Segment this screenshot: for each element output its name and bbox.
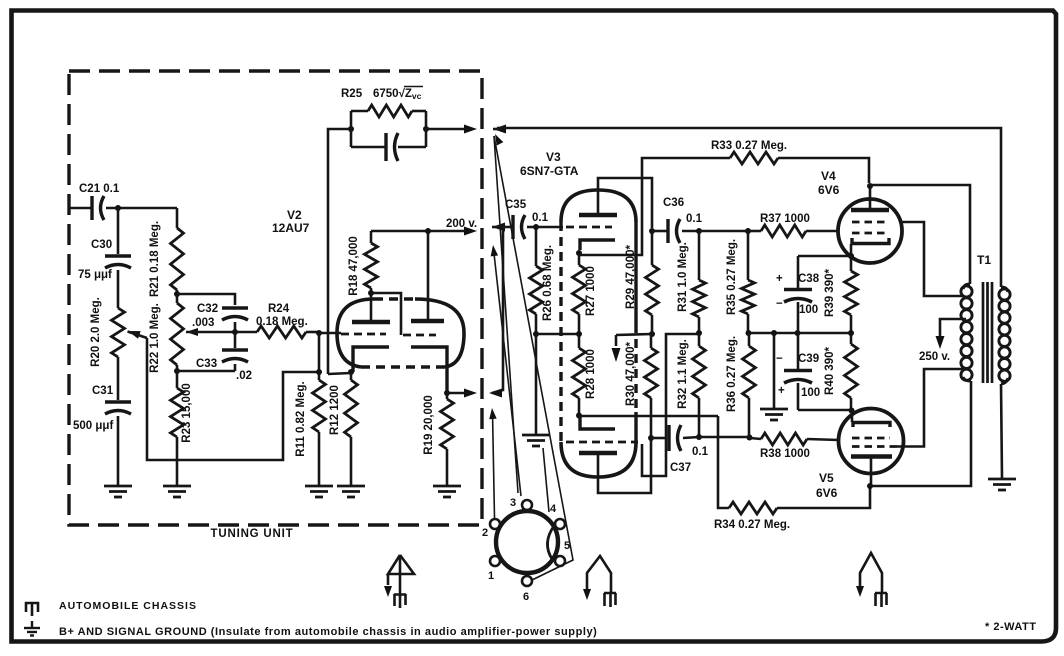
socket pin 5: [555, 556, 565, 566]
V4 cathode: [852, 238, 889, 244]
socket pin 3: [522, 500, 532, 510]
wire wedge line apex to pin5 side: [494, 136, 573, 580]
wire V4 screen to transformer tap: [902, 222, 963, 296]
node C38-C39 on rail: [795, 330, 801, 336]
wire 250v tap: [940, 319, 966, 341]
capacitor C36: [652, 230, 668, 233]
wire V4 cathode to C38: [798, 255, 851, 258]
node R35 top: [745, 228, 751, 234]
socket keyway arc: [547, 526, 554, 559]
wire V3 upper cathode to R33: [579, 158, 730, 255]
resistor R38: [750, 438, 761, 439]
svg-text:R40 390*: R40 390*: [824, 347, 836, 395]
ground R26: [535, 334, 538, 434]
wire ground rail left segment: [536, 333, 579, 336]
wire V5 screen to transformer tap: [897, 369, 963, 447]
V5 grid dashes: [852, 437, 890, 440]
resistor R28: [578, 334, 581, 348]
svg-text:.02: .02: [236, 370, 252, 382]
svg-text:6SN7-GTA: 6SN7-GTA: [520, 164, 579, 178]
wire secondary bottom to ground: [1001, 384, 1002, 478]
svg-text:C35: C35: [505, 199, 527, 211]
resistor R29: [651, 231, 654, 265]
svg-text:0.1: 0.1: [692, 446, 709, 458]
svg-text:R20 2.0 Meg.: R20 2.0 Meg.: [90, 297, 102, 367]
wire C36 to R37: [699, 230, 748, 233]
svg-text:100: 100: [801, 387, 820, 399]
resistor R24: [235, 331, 257, 334]
svg-text:V5: V5: [819, 471, 834, 485]
wire C37 to R38 node: [699, 436, 750, 439]
resistor R22 potentiometer: [171, 303, 184, 365]
wire C33 bottom to R22 bottom: [177, 370, 235, 373]
capacitor C39 electrolytic: [797, 333, 800, 369]
node C35-R26: [533, 224, 539, 230]
connector symbol left with chassis fork: [388, 555, 414, 574]
V5 plate: [851, 454, 892, 459]
svg-text:R27 1000: R27 1000: [585, 266, 597, 316]
wire pin4 stub: [543, 448, 549, 512]
B plus feed arrow segment: [615, 335, 618, 346]
V5 screen dashes: [852, 445, 897, 448]
legend automobile chassis symbol: [26, 603, 38, 616]
svg-text:V2: V2: [287, 208, 302, 222]
svg-text:−: −: [776, 353, 783, 365]
capacitor in R25 box: [384, 133, 387, 161]
V3 lower cathode bracket: [580, 416, 615, 429]
wire V4 plate to transformer primary top: [870, 185, 970, 284]
svg-text:100: 100: [799, 304, 818, 316]
node V5 plate: [867, 483, 873, 489]
svg-text:2: 2: [482, 527, 488, 539]
wire V3 lower plate loop to R30: [598, 440, 651, 493]
svg-text:R32 1.1 Meg.: R32 1.1 Meg.: [677, 339, 689, 409]
capacitor C21: [70, 207, 92, 210]
node R27-R28 ground rail: [576, 331, 582, 337]
V4 screen grid dashes: [852, 221, 889, 224]
capacitor C30: [117, 208, 120, 254]
tube V4 6V6: [838, 199, 902, 263]
arrow R25 to border: [426, 128, 466, 131]
wire R21 bottom to C32: [177, 294, 235, 305]
svg-text:R31 1.0 Meg.: R31 1.0 Meg.: [677, 242, 689, 312]
node V3 upper plate C36 R29: [649, 228, 655, 234]
socket pin 6: [522, 576, 532, 586]
wire R20 wiper down: [147, 338, 317, 460]
legend B+ ground symbol: [31, 621, 33, 627]
svg-text:6V6: 6V6: [818, 183, 840, 197]
transformer core: [982, 282, 985, 383]
svg-text:R30 47,000*: R30 47,000*: [625, 342, 637, 406]
resistor R26: [535, 227, 538, 266]
capacitor C33: [234, 332, 237, 348]
svg-text:C39: C39: [798, 353, 819, 365]
svg-text:V4: V4: [821, 169, 836, 183]
svg-text:.003: .003: [192, 317, 214, 329]
node R32-C37 row: [696, 434, 702, 440]
wire V2 grid: [319, 332, 341, 335]
node R28 bottom cathode: [576, 413, 582, 419]
V3 lower plate: [579, 451, 617, 456]
svg-text:C32: C32: [197, 303, 218, 315]
ground T1 secondary: [988, 478, 1016, 481]
resistor R23: [176, 371, 179, 388]
arrow C35 line into tuning unit: [492, 223, 505, 232]
R22 wiper arrow: [186, 328, 198, 336]
svg-text:R37 1000: R37 1000: [760, 213, 810, 225]
node R21-R22: [174, 291, 180, 297]
capacitor C35: [499, 226, 513, 229]
node R36-R38 junction: [747, 435, 753, 441]
node C36-R31: [696, 228, 702, 234]
resistor R39: [850, 256, 853, 271]
socket pin 2: [490, 519, 500, 529]
wire V3 lower grid jog to R31-R32 node: [642, 334, 697, 476]
svg-text:C33: C33: [196, 358, 217, 370]
V3 upper plate: [579, 213, 617, 218]
svg-text:R19 20,000: R19 20,000: [423, 395, 435, 454]
capacitor C32: [222, 306, 248, 309]
resistor R18: [370, 288, 373, 293]
ground R23: [163, 485, 191, 488]
svg-text:R36 0.27 Meg.: R36 0.27 Meg.: [726, 336, 738, 412]
node C32-C33 midpoint: [232, 329, 238, 335]
wire C35 diagonal to pin 3: [494, 249, 522, 496]
V2 left plate: [352, 320, 390, 325]
V3 upper cathode: [580, 240, 615, 250]
svg-text:200 v.: 200 v.: [446, 218, 477, 230]
svg-text:+: +: [778, 385, 785, 397]
connector symbol right with chassis fork: [860, 553, 882, 592]
connector symbol middle with chassis fork: [587, 556, 611, 592]
svg-text:4: 4: [550, 503, 557, 515]
resistor R31: [698, 231, 701, 280]
svg-text:R18 47,000: R18 47,000: [348, 236, 360, 295]
wire V3 lower cathode row to R34: [579, 415, 718, 418]
svg-text:R23 15,000: R23 15,000: [181, 383, 193, 442]
node R26 bottom: [533, 331, 539, 337]
arrow wedge apex: [495, 134, 503, 146]
svg-text:12AU7: 12AU7: [272, 221, 310, 235]
svg-text:1: 1: [488, 570, 494, 582]
node R39-R40 rail: [848, 330, 854, 336]
wire top feedback rail: [497, 128, 1001, 287]
node R24-R11 junction: [316, 330, 322, 336]
svg-text:C36: C36: [663, 197, 684, 209]
svg-text:C37: C37: [670, 462, 691, 474]
V2 left grid: [341, 333, 386, 336]
V4 control grid dashes: [852, 232, 889, 235]
svg-text:AUTOMOBILE CHASSIS: AUTOMOBILE CHASSIS: [59, 600, 197, 612]
V3 lower grid: [566, 441, 638, 444]
svg-text:75 μμf: 75 μμf: [78, 269, 112, 281]
resistor R19: [444, 390, 450, 396]
V2 right plate: [411, 319, 444, 324]
svg-text:3: 3: [510, 497, 516, 509]
capacitor C38 electrolytic: [797, 256, 800, 288]
V3 upper grid: [536, 226, 563, 229]
resistor R34: [729, 502, 777, 514]
svg-text:R11 0.82 Meg.: R11 0.82 Meg.: [295, 381, 307, 456]
node R30-C37: [648, 435, 654, 441]
ground R19: [433, 485, 461, 488]
node R22 bottom: [174, 368, 180, 374]
svg-text:−: −: [776, 298, 783, 310]
svg-text:R35 0.27 Meg.: R35 0.27 Meg.: [726, 239, 738, 315]
wire R33 feedback: [730, 152, 778, 164]
svg-text:R33 0.27 Meg.: R33 0.27 Meg.: [711, 140, 787, 152]
R20 wiper arrow: [128, 331, 141, 339]
wire wedge line apex to pin3: [494, 136, 518, 493]
svg-text:500 μμf: 500 μμf: [73, 420, 113, 432]
arrow R19 to border: [447, 392, 466, 395]
resistor R27: [578, 253, 581, 265]
svg-text:R28 1000: R28 1000: [585, 349, 597, 399]
ground mid rail: [773, 333, 776, 408]
arrow feedback rail into tuning unit: [493, 125, 506, 134]
node V4 plate: [867, 183, 873, 189]
svg-text:R39 390*: R39 390*: [824, 269, 836, 317]
resistor R20 potentiometer: [112, 308, 125, 357]
ground R12: [337, 485, 365, 488]
svg-text:0.1: 0.1: [532, 212, 549, 224]
node R31-R32 floating junction: [696, 330, 702, 336]
wire R34 from V3 cathode row: [718, 416, 729, 508]
svg-text:250 v.: 250 v.: [919, 351, 950, 363]
V2 left cathode: [353, 347, 389, 372]
wire ground rail right segment: [748, 332, 851, 335]
arrow 200v to border: [464, 227, 477, 236]
resistor R40: [850, 333, 853, 344]
ground R11: [305, 485, 333, 488]
svg-text:T1: T1: [977, 253, 991, 267]
node V4 cathode: [848, 253, 854, 259]
svg-text:R22 1.0 Meg.: R22 1.0 Meg.: [149, 303, 161, 373]
node R35-R36 ground rail: [746, 330, 752, 336]
svg-text:V3: V3: [546, 150, 561, 164]
svg-text:R29 47,000*: R29 47,000*: [625, 245, 637, 309]
svg-text:R38 1000: R38 1000: [760, 448, 810, 460]
svg-text:R12 1200: R12 1200: [329, 385, 341, 435]
wire R19 vertical to pin 2: [493, 412, 495, 518]
resistor R12: [350, 372, 353, 380]
socket pin 4: [555, 519, 565, 529]
svg-text:+: +: [776, 273, 783, 285]
transformer T1 primary winding: [963, 284, 970, 289]
svg-text:C31: C31: [92, 385, 114, 397]
svg-text:* 2-WATT: * 2-WATT: [985, 621, 1036, 633]
resistor R21: [176, 208, 179, 228]
wire R25 left from V2 cathode: [328, 129, 351, 374]
svg-text:B+ AND SIGNAL GROUND (Insu: B+ AND SIGNAL GROUND (Insulate from auto…: [59, 626, 597, 638]
socket pin 1: [490, 556, 500, 566]
svg-text:R24: R24: [268, 303, 290, 315]
node R40-V5 cathode: [849, 408, 855, 414]
svg-text:6V6: 6V6: [816, 486, 838, 500]
svg-text:0.1: 0.1: [686, 213, 703, 225]
V2 right grid: [403, 334, 436, 337]
tuning unit dashed box: [69, 71, 482, 525]
svg-text:R21 0.18 Meg.: R21 0.18 Meg.: [149, 221, 161, 297]
socket circle: [496, 511, 558, 573]
svg-text:5: 5: [564, 540, 570, 552]
wire C39 bottom to V5 cathode: [797, 409, 800, 410]
svg-text:R26 0.68 Meg.: R26 0.68 Meg.: [542, 245, 554, 321]
wire V5 plate to transformer primary bottom: [870, 381, 971, 486]
ground C31: [104, 485, 132, 488]
svg-text:C21 0.1: C21 0.1: [79, 183, 120, 195]
node C21-R21 junction: [115, 205, 121, 211]
V5 cathode: [851, 411, 854, 422]
svg-text:0.18 Meg.: 0.18 Meg.: [256, 316, 308, 328]
tube V2 12AU7 envelope: [337, 299, 374, 367]
svg-text:C38: C38: [798, 273, 820, 285]
node V2 cathode-R12: [348, 369, 354, 375]
V4 plate: [851, 208, 889, 213]
tube V5 6V6: [839, 409, 904, 474]
V2 right cathode: [411, 347, 447, 393]
svg-text:R34 0.27 Meg.: R34 0.27 Meg.: [714, 519, 790, 531]
resistor R11: [318, 372, 321, 380]
resistor R37: [748, 230, 761, 233]
resistor R36: [748, 333, 751, 346]
svg-text:TUNING UNIT: TUNING UNIT: [211, 528, 294, 540]
capacitor C31: [117, 357, 120, 400]
tube V3 6SN7-GTA envelope: [561, 190, 636, 222]
resistor R25 with parallel capacitor: [348, 126, 354, 132]
resistor R30: [650, 334, 653, 348]
svg-text:R25: R25: [341, 88, 363, 100]
resistor R32: [698, 333, 701, 346]
transformer T1 secondary winding: [1001, 287, 1008, 292]
wire C35 net down to lower border arrow: [492, 227, 503, 393]
svg-text:6: 6: [523, 591, 529, 603]
resistor R35: [747, 231, 750, 280]
wire 200v plate rail: [371, 230, 466, 233]
arrow R19 line into tuning unit: [489, 389, 502, 398]
capacitor C37: [651, 437, 666, 440]
node V2 plate-R18: [368, 290, 374, 296]
node R29-R30 junction: [649, 331, 655, 337]
svg-text:C30: C30: [91, 239, 112, 251]
